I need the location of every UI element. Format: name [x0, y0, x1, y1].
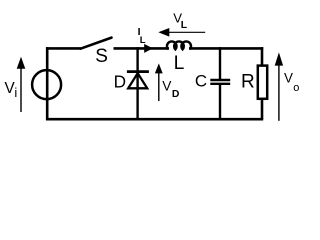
svg-text:D: D — [172, 89, 180, 100]
source V_i — [32, 70, 61, 99]
capacitor C — [210, 79, 230, 81]
svg-text:S: S — [95, 46, 108, 67]
svg-text:D: D — [114, 72, 126, 92]
svg-text:i: i — [14, 85, 17, 100]
capacitor branch wire lower — [219, 85, 221, 119]
svg-text:o: o — [293, 82, 299, 94]
voltage arrow V_i — [20, 66, 22, 112]
left vertical wire — [46, 47, 49, 120]
wire top-left segment — [46, 47, 81, 50]
svg-text:C: C — [195, 72, 207, 91]
svg-text:L: L — [181, 20, 188, 31]
svg-text:L: L — [140, 35, 146, 46]
right vertical wire lower — [261, 100, 264, 120]
switch S — [81, 38, 112, 49]
svg-text:V: V — [284, 71, 293, 86]
right vertical wire upper — [261, 47, 264, 65]
bottom wire — [46, 118, 263, 121]
voltage arrow V_D — [158, 67, 160, 101]
wire top-right segment — [189, 47, 263, 50]
capacitor branch wire upper — [219, 47, 221, 79]
voltage arrow V_o — [278, 64, 280, 121]
voltage arrow V_L — [168, 31, 205, 33]
diode D — [127, 70, 149, 73]
inductor L — [167, 41, 191, 49]
current arrow I_L — [144, 44, 153, 53]
resistor R — [258, 66, 267, 99]
svg-text:L: L — [174, 53, 185, 74]
wire top-middle segment — [114, 47, 170, 50]
svg-text:V: V — [162, 79, 172, 94]
svg-text:R: R — [241, 72, 255, 93]
diode branch wire — [136, 47, 138, 119]
